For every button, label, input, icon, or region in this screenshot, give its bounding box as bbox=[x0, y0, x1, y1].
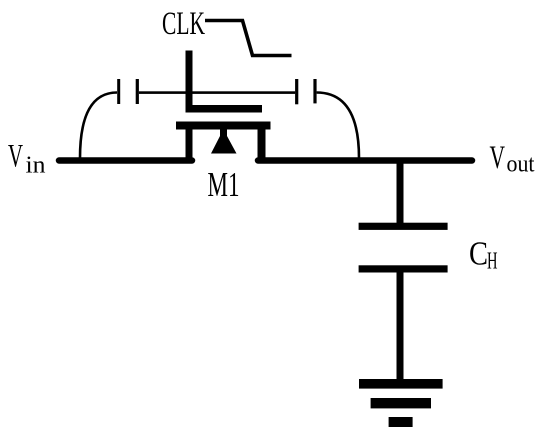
transistor M1 drain leg bbox=[258, 130, 266, 161]
wire Vin to source bbox=[59, 157, 192, 164]
CLK falling-edge waveform bbox=[205, 21, 292, 56]
transistor M1 substrate arrow bbox=[211, 129, 237, 154]
svg-text:C: C bbox=[469, 236, 488, 273]
capacitor CH top plate bbox=[359, 223, 448, 230]
transistor M1 source leg bbox=[186, 130, 193, 161]
parasitic capacitor left plate pair bbox=[117, 79, 120, 104]
svg-text:H: H bbox=[487, 249, 498, 275]
wire drain to Vout bbox=[258, 157, 472, 164]
svg-text:V: V bbox=[8, 139, 23, 175]
transistor M1 gate bar bbox=[186, 105, 263, 113]
capacitor CH bottom plate bbox=[359, 265, 448, 272]
ground bar 3 bbox=[389, 417, 413, 427]
wire gate lead (vertical from CLK) bbox=[186, 51, 193, 113]
ground bar 1 bbox=[359, 379, 443, 389]
wire curved lead from Vin wire to parasitic cap bbox=[80, 93, 117, 159]
wire Vout node down to CH bbox=[397, 161, 404, 224]
svg-text:out: out bbox=[507, 152, 535, 178]
svg-text:CLK: CLK bbox=[162, 6, 205, 42]
parasitic capacitor right plate pair bbox=[295, 79, 298, 104]
wire curved lead from parasitic cap down to Vout wire bbox=[317, 93, 359, 159]
wire thin link between parasitic caps (through gate lead) bbox=[139, 91, 295, 94]
wire CH down to ground bbox=[397, 273, 404, 380]
transistor M1 channel bar bbox=[176, 122, 271, 130]
svg-text:in: in bbox=[26, 153, 46, 179]
svg-text:M1: M1 bbox=[208, 166, 240, 204]
ground bar 2 bbox=[371, 398, 431, 408]
svg-text:V: V bbox=[490, 140, 506, 176]
